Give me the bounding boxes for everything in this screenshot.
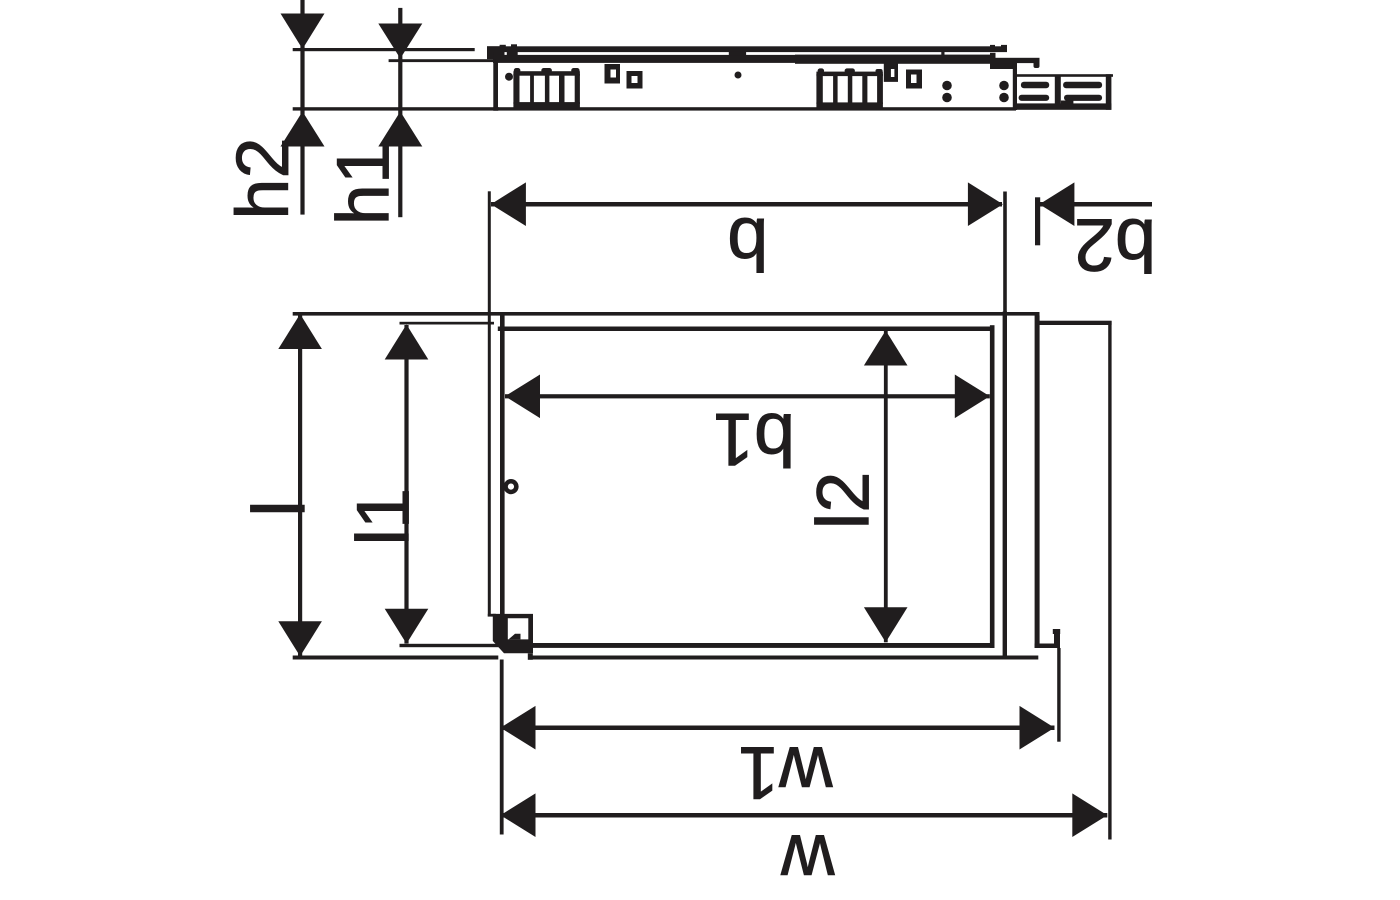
- side view: hook stub down: [1034, 58, 1040, 68]
- dim l1 label: [341, 488, 424, 546]
- side view: body bottom bar: [493, 107, 1016, 110]
- dim b left arrowhead: [491, 182, 526, 226]
- bracket slot bars group A: [1021, 82, 1049, 89]
- plan: corner jog: [488, 614, 496, 617]
- bracket slot bars group B: [1063, 82, 1102, 89]
- svg-text:l: l: [237, 500, 320, 516]
- ladder 1 left dot: [505, 73, 513, 81]
- center dot: [735, 72, 742, 79]
- side view: slit bridge 2: [941, 52, 944, 56]
- rivet dots pair 2: [999, 81, 1009, 91]
- dim w line: [501, 813, 1108, 818]
- plan: second bottom edge with l extension: [293, 656, 499, 660]
- svg-text:b2: b2: [1074, 203, 1156, 286]
- rear bracket divider: [1055, 76, 1061, 104]
- rivet dots pair 1: [942, 81, 952, 91]
- plan: front rail right edge: [1035, 316, 1040, 649]
- svg-text:b1: b1: [713, 398, 795, 481]
- ladder 1 bottom rail: [513, 102, 580, 108]
- plan: front rail bottom hook: [1035, 644, 1058, 649]
- svg-text:h2: h2: [221, 137, 304, 219]
- bracket bottom step piece: [1061, 101, 1074, 109]
- rear bracket right edge: [1106, 74, 1112, 110]
- dim b2 line: [1039, 202, 1152, 207]
- side view: flange left solid block: [487, 46, 498, 59]
- plan: corner blob: [493, 614, 533, 653]
- dim l top arrowhead: [278, 314, 322, 349]
- svg-text:w1: w1: [738, 731, 834, 814]
- square hole 2: [627, 71, 643, 89]
- ladder 1 bumps: [514, 68, 521, 73]
- dim l2 line: [884, 331, 888, 642]
- h2 arrowhead up: [281, 112, 325, 147]
- dim w1 left extension: [500, 660, 504, 835]
- dim b1 right arrowhead: [955, 375, 990, 419]
- side view: step bar to hook: [995, 58, 1040, 63]
- plan: inner rect top edge: [498, 327, 994, 332]
- plan: inner rect right edge: [990, 325, 995, 648]
- side view: slit bridge 1: [729, 52, 746, 56]
- dim l2 bottom arrowhead: [864, 607, 908, 642]
- dim b2 label: [1074, 203, 1156, 286]
- svg-text:h1: h1: [321, 143, 404, 225]
- ladder 2 verticals: [816, 74, 822, 104]
- rear bracket bottom edge: [1015, 103, 1112, 109]
- h1 top extension line: [389, 59, 496, 62]
- ladder 2 bumps: [818, 68, 825, 73]
- dim w1 label: [738, 731, 834, 814]
- plan: inner rect left edge: [500, 316, 505, 616]
- svg-text:l1: l1: [341, 488, 424, 546]
- dim w1 right extension: [1057, 648, 1060, 742]
- dim l label: [237, 500, 320, 516]
- dim w1 line: [501, 726, 1055, 731]
- h dims: bottom extension line: [293, 107, 499, 110]
- dim b line: [491, 202, 1002, 207]
- h2 dimension line: [300, 0, 304, 215]
- dim w1 left arrowhead: [501, 706, 536, 750]
- side view: join block right: [990, 53, 996, 69]
- ladder 1 top rail: [513, 71, 580, 76]
- h2 label: [221, 137, 304, 219]
- plan: w1 right ext stub: [1053, 629, 1060, 634]
- plan: inner rect bottom edge: [533, 643, 995, 648]
- plan: l1 top extension line: [400, 322, 495, 325]
- dim w1 right arrowhead: [1020, 706, 1055, 750]
- square hole 3: [906, 70, 922, 89]
- square hole 1: [605, 64, 621, 84]
- svg-text:w: w: [781, 820, 836, 900]
- ladder 2 top rail: [816, 72, 883, 77]
- h1 dimension line: [398, 8, 402, 217]
- dim b1 left arrowhead: [505, 375, 540, 419]
- dim b1 label: [713, 398, 795, 481]
- h1 arrowhead up: [378, 112, 422, 147]
- h2 arrowhead down: [281, 14, 325, 50]
- side view: body right edge: [1013, 62, 1017, 110]
- dim w label: [781, 820, 836, 900]
- side view: outer rail top flange: [487, 46, 1007, 52]
- dim l1 bottom arrowhead: [385, 609, 429, 644]
- dim w right arrowhead: [1072, 793, 1107, 837]
- dim l2 label: [802, 472, 885, 530]
- side view: flange left tabs: [500, 45, 506, 48]
- h1 arrowhead down: [378, 24, 422, 59]
- plan: outer left thin edge: [488, 191, 491, 616]
- plan: l1 bottom extension (continues inner bottom): [400, 644, 535, 647]
- side view: body left edge: [493, 52, 498, 111]
- plan: corner blob inner bump: [509, 634, 521, 640]
- dim l2 top arrowhead: [864, 331, 908, 366]
- plan: front rail left edge (b right extension): [1003, 192, 1007, 313]
- side view: second rail band right part: [795, 55, 991, 64]
- plan: small circle on left rail: [503, 479, 518, 494]
- side view: flange right bumps: [990, 45, 995, 48]
- dim l1 line: [404, 325, 408, 644]
- ladder 2 bottom rail: [816, 102, 883, 108]
- dim b2 arrowhead: [1039, 182, 1074, 226]
- ladder 1 verticals: [513, 74, 519, 104]
- dim l1 top arrowhead: [385, 325, 429, 360]
- dim l bottom arrowhead: [278, 621, 322, 656]
- plan view: top edge with l extension: [293, 312, 1040, 316]
- side view: second rail band left part: [493, 55, 795, 63]
- dim b1 line: [505, 394, 990, 398]
- svg-text:l2: l2: [802, 472, 885, 530]
- dim b right arrowhead: [968, 182, 1003, 226]
- svg-text:b: b: [727, 202, 768, 285]
- tab with hole: [884, 64, 898, 82]
- h1 label: [321, 143, 404, 225]
- rear bracket top edge: [1015, 74, 1113, 77]
- dim w left arrowhead: [501, 793, 536, 837]
- h2 top extension line: [293, 48, 475, 51]
- plan: w ext top connector: [1037, 321, 1112, 325]
- plan: w right extension line: [1108, 321, 1111, 840]
- dim b2 tick: [1035, 197, 1040, 245]
- side view: slit bridge 0: [507, 52, 518, 56]
- dim l line: [298, 313, 302, 656]
- plan: corner blob lower connector: [528, 653, 533, 660]
- dim b label: [727, 202, 768, 285]
